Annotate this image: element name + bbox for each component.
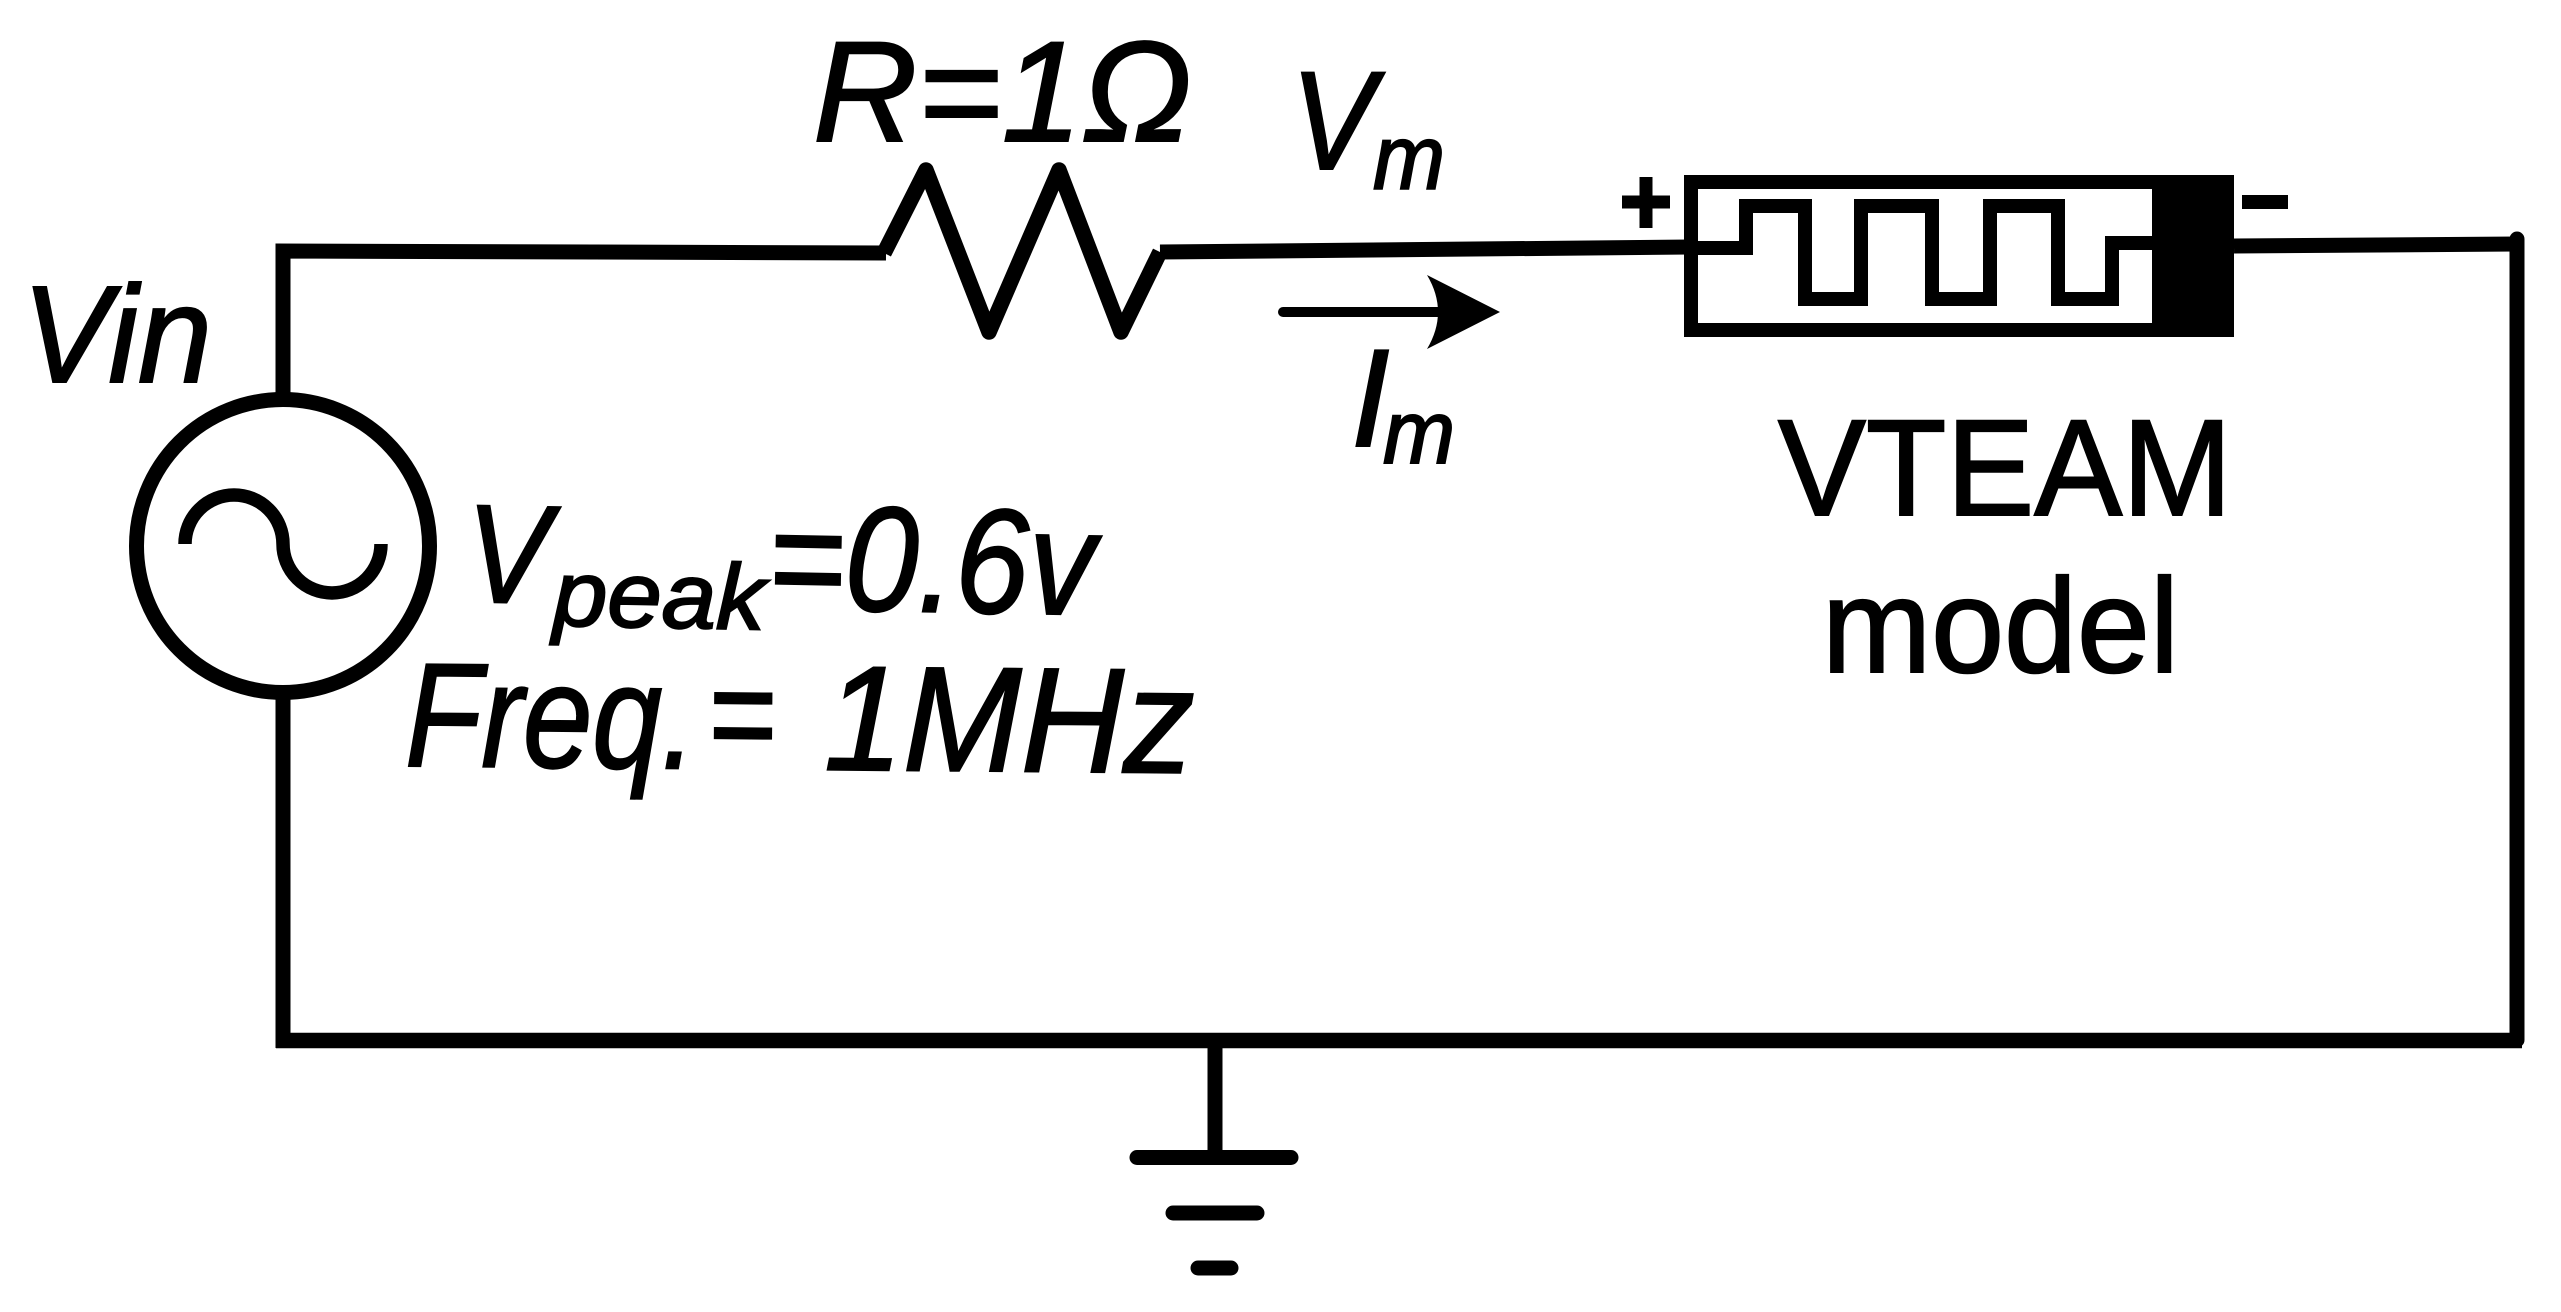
svg-text:V: V [464,475,561,634]
svg-text:VTEAM: VTEAM [1778,392,2232,545]
svg-text:=0.6v: =0.6v [766,474,1103,647]
svg-text:peak: peak [549,541,771,649]
svg-text:1MHz: 1MHz [824,635,1195,805]
svg-text:V: V [1291,42,1385,199]
svg-text:=: = [707,635,776,793]
svg-text:m: m [1383,382,1455,482]
svg-text:Vin: Vin [22,258,212,412]
svg-text:model: model [1822,552,2179,701]
svg-text:Freq.: Freq. [405,633,697,801]
svg-text:m: m [1373,108,1445,209]
svg-text:R=1Ω: R=1Ω [813,13,1192,172]
